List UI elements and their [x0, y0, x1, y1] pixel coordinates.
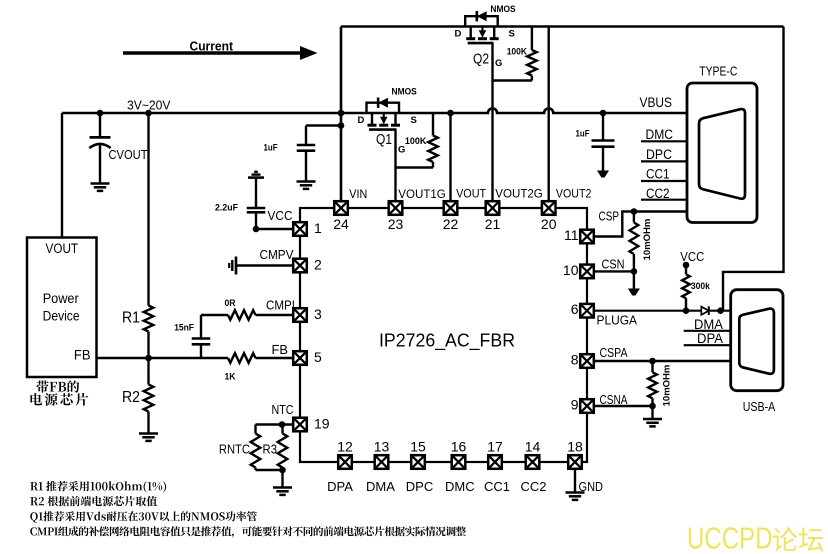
svg-text:DMA: DMA — [366, 479, 395, 494]
svg-text:Device: Device — [43, 308, 80, 323]
svg-text:1uF: 1uF — [264, 143, 278, 154]
svg-text:0R: 0R — [225, 298, 236, 309]
svg-text:Current: Current — [190, 39, 234, 54]
svg-text:17: 17 — [487, 439, 503, 455]
svg-text:CC1: CC1 — [646, 167, 670, 182]
svg-text:15nF: 15nF — [174, 323, 194, 334]
svg-text:NMOS: NMOS — [490, 4, 515, 15]
svg-text:2.2uF: 2.2uF — [215, 203, 238, 214]
svg-text:100K: 100K — [405, 136, 427, 147]
svg-text:D: D — [358, 115, 365, 126]
svg-text:S: S — [411, 115, 417, 126]
svg-text:DMC: DMC — [445, 479, 475, 494]
svg-text:15: 15 — [410, 439, 426, 455]
svg-text:VCC: VCC — [680, 250, 704, 264]
svg-text:DMA: DMA — [694, 317, 723, 332]
svg-text:S: S — [509, 29, 515, 40]
svg-text:VOUT2: VOUT2 — [556, 187, 592, 201]
svg-text:1K: 1K — [225, 372, 236, 383]
svg-text:24: 24 — [333, 216, 349, 232]
svg-text:IP2726_AC_FBR: IP2726_AC_FBR — [379, 331, 515, 352]
svg-text:R3: R3 — [263, 443, 278, 457]
svg-text:CSN: CSN — [602, 258, 625, 272]
svg-text:18: 18 — [567, 439, 583, 455]
svg-text:VOUT1G: VOUT1G — [398, 187, 446, 201]
svg-text:DPC: DPC — [406, 479, 433, 494]
svg-text:RNTC: RNTC — [219, 443, 250, 457]
svg-text:2: 2 — [314, 257, 322, 273]
svg-text:10mOHm: 10mOHm — [662, 365, 673, 407]
svg-text:CVOUT: CVOUT — [109, 148, 148, 162]
svg-text:USB-A: USB-A — [743, 399, 776, 414]
svg-text:11: 11 — [564, 227, 579, 243]
svg-text:D: D — [455, 29, 462, 40]
svg-text:PLUGA: PLUGA — [597, 314, 638, 328]
svg-text:UCCPD: UCCPD — [687, 521, 773, 554]
svg-text:300k: 300k — [691, 281, 711, 292]
svg-text:5: 5 — [314, 349, 322, 365]
svg-text:FB: FB — [74, 348, 91, 363]
svg-text:100K: 100K — [507, 47, 527, 58]
svg-text:19: 19 — [314, 416, 330, 432]
svg-text:G: G — [495, 58, 502, 69]
svg-text:CMPI: CMPI — [266, 299, 295, 313]
svg-text:13: 13 — [374, 439, 390, 455]
svg-text:3V~20V: 3V~20V — [127, 99, 171, 113]
svg-text:Q1: Q1 — [376, 131, 392, 148]
svg-text:CSP: CSP — [599, 210, 620, 224]
svg-text:R2: R2 — [122, 389, 140, 406]
svg-text:DPC: DPC — [646, 147, 672, 162]
svg-text:DPA: DPA — [327, 479, 353, 494]
svg-text:10mOHm: 10mOHm — [642, 219, 653, 261]
svg-text:FB: FB — [272, 343, 289, 357]
svg-text:CC2: CC2 — [520, 479, 546, 494]
svg-text:DMC: DMC — [646, 127, 674, 142]
svg-text:1uF: 1uF — [576, 129, 590, 140]
svg-text:VOUT: VOUT — [456, 187, 487, 201]
svg-text:CC2: CC2 — [646, 186, 670, 201]
svg-text:VOUT2G: VOUT2G — [495, 187, 543, 201]
svg-text:VCC: VCC — [268, 209, 293, 223]
svg-text:CC1: CC1 — [484, 479, 510, 494]
svg-text:DPA: DPA — [697, 331, 723, 346]
svg-text:8: 8 — [571, 352, 579, 368]
svg-text:Q2: Q2 — [473, 51, 489, 68]
svg-text:16: 16 — [451, 439, 467, 455]
svg-text:22: 22 — [443, 216, 459, 232]
svg-text:GND: GND — [579, 480, 604, 494]
svg-text:NTC: NTC — [272, 403, 294, 417]
svg-text:20: 20 — [541, 216, 557, 232]
svg-text:CSNA: CSNA — [600, 393, 629, 407]
svg-text:TYPE-C: TYPE-C — [699, 64, 737, 79]
svg-text:CSPA: CSPA — [600, 346, 629, 360]
svg-text:Power: Power — [43, 291, 79, 306]
svg-text:14: 14 — [525, 439, 541, 455]
svg-text:23: 23 — [388, 216, 404, 232]
svg-text:R1: R1 — [122, 310, 140, 327]
svg-text:1: 1 — [314, 220, 322, 236]
svg-text:9: 9 — [571, 397, 579, 413]
svg-text:NMOS: NMOS — [392, 87, 417, 98]
svg-text:VOUT: VOUT — [46, 241, 79, 256]
svg-text:12: 12 — [337, 439, 353, 455]
svg-text:6: 6 — [571, 301, 579, 317]
svg-text:CMPV: CMPV — [260, 248, 295, 262]
svg-text:VBUS: VBUS — [640, 95, 673, 110]
svg-text:10: 10 — [563, 262, 579, 278]
svg-text:VIN: VIN — [349, 187, 367, 201]
svg-text:21: 21 — [485, 216, 501, 232]
svg-text:3: 3 — [314, 306, 322, 322]
